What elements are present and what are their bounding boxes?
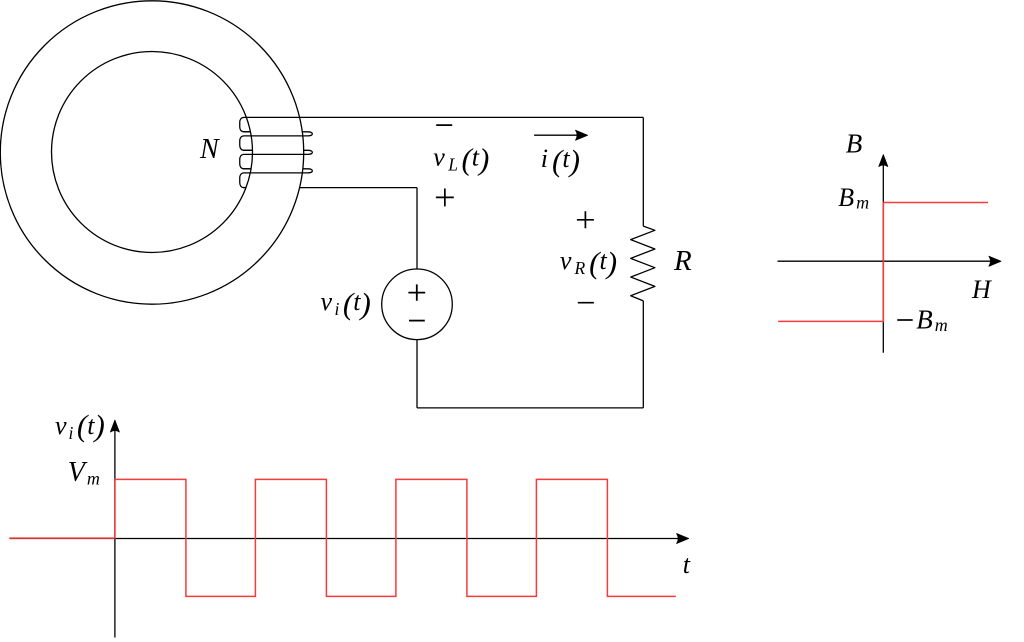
polarity plus below vL: [436, 189, 454, 207]
wire source top lead: [416, 188, 418, 269]
B-H red step curve: [778, 203, 988, 322]
B axis vertical: [882, 159, 884, 353]
H axis horizontal: [778, 260, 997, 262]
svg-text:vi(t): vi(t): [321, 286, 371, 321]
t axis arrow head: [677, 534, 689, 544]
B axis arrow head: [879, 155, 888, 167]
svg-text:B: B: [846, 129, 863, 159]
svg-text:H: H: [971, 275, 992, 304]
polarity plus above vR: [577, 211, 594, 228]
svg-text:R: R: [673, 245, 692, 277]
svg-text:N: N: [199, 134, 220, 165]
coil N turn1 front + top lead wire: [240, 117, 644, 131]
toroidal core outer circle: [0, 1, 303, 304]
wire right vertical bottom: [642, 301, 644, 408]
t axis horizontal: [9, 538, 683, 540]
wire turn1 bottom right + stub: [302, 132, 312, 136]
svg-text:Bm: Bm: [916, 304, 948, 335]
minus of -Bm: [897, 319, 912, 321]
wire right vertical top: [642, 117, 644, 226]
coil N turn4 front: [240, 173, 308, 188]
wire turn3 bottom right + stub: [303, 169, 313, 173]
coil N turn2 front: [240, 136, 308, 150]
current arrow head: [576, 130, 588, 140]
polarity minus above vL: [436, 124, 452, 126]
svg-text:vL(t): vL(t): [433, 142, 489, 177]
resistor R zigzag: [631, 226, 655, 301]
wire turn1 bottom (visible in hole): [243, 131, 250, 133]
toroidal core inner circle: [52, 52, 253, 253]
wire turn2 bottom right + stub: [304, 150, 313, 154]
svg-text:i(t): i(t): [541, 143, 580, 178]
B-H graph axes: [778, 159, 997, 353]
source plus sign: [408, 284, 425, 300]
svg-text:Vm: Vm: [68, 457, 100, 489]
svg-text:vi(t): vi(t): [55, 408, 105, 443]
wire turn4 bottom (visible in hole): [243, 187, 246, 189]
H axis arrow head: [989, 256, 1001, 266]
wire turn2 bottom (visible in hole): [243, 149, 253, 151]
source minus sign: [409, 320, 425, 322]
red square wave vi(t): [9, 479, 675, 596]
polarity minus below vR: [578, 302, 594, 304]
vi axis arrow head: [110, 420, 119, 432]
wire coil bottom lead to source branch: [300, 187, 418, 189]
wire source bottom lead: [416, 340, 418, 408]
svg-text:Bm: Bm: [838, 183, 869, 213]
wire turn3 bottom (visible in hole): [243, 168, 251, 170]
vi axis vertical: [114, 425, 116, 638]
voltage source circle: [382, 269, 453, 340]
svg-text:vR(t): vR(t): [560, 245, 617, 280]
coil N turn3 front: [240, 154, 308, 168]
current arrow i(t): [534, 134, 578, 136]
svg-text:t: t: [683, 550, 691, 579]
wire bottom horizontal: [417, 407, 643, 409]
vi(t) graph axes: [9, 425, 683, 638]
